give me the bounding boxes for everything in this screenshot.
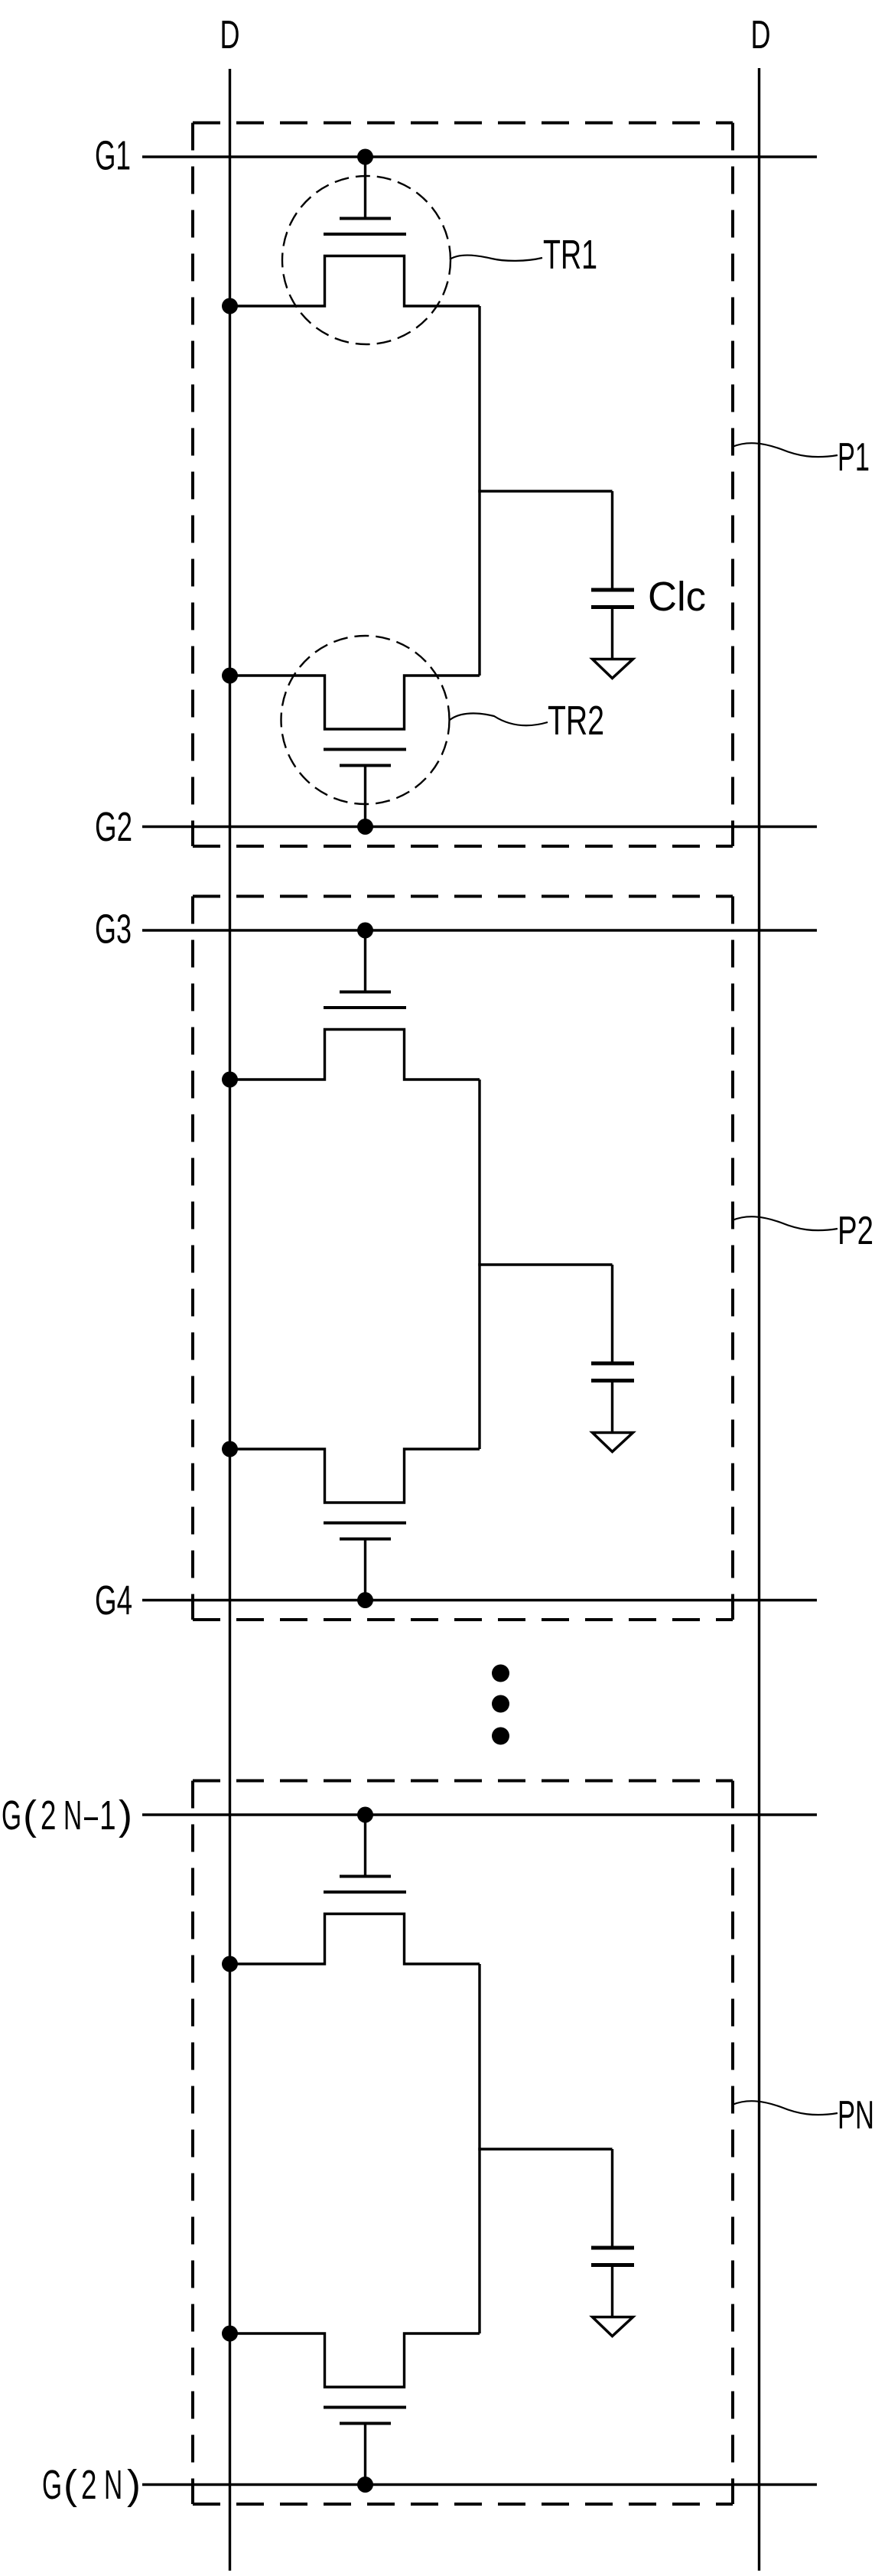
label G(2N-1) <box>2 1792 132 1838</box>
transistor TR1 (PN) channel / source-drain <box>229 1914 480 1965</box>
svg-text:G1: G1 <box>95 133 131 179</box>
svg-text:G2: G2 <box>95 804 132 850</box>
wire: branch to pixel capacitor <box>478 490 612 492</box>
transistor TR2 (PN) channel / source-drain <box>229 2333 480 2387</box>
gate line G4 <box>142 1599 817 1601</box>
transistor TR2 (PN) insulator bar <box>324 2406 406 2409</box>
wire: TR1 drain to TR2 drain <box>478 306 480 676</box>
svg-text:PN: PN <box>838 2093 874 2138</box>
transistor TR2 (P2) channel / source-drain <box>229 1449 480 1503</box>
ground symbol (pixel P2) <box>593 1433 633 1452</box>
label G(2N) <box>42 2461 141 2508</box>
label TR2 with leader <box>450 698 604 744</box>
dashed circle around transistor TR1 <box>282 176 451 344</box>
transistor TR2 (P2) gate electrode bar <box>340 1538 391 1541</box>
label P2 with leader <box>733 1209 874 1253</box>
junction dot: TR1 source on data line D <box>222 298 238 314</box>
transistor TR2 channel / source-drain <box>229 676 480 729</box>
svg-text:1: 1 <box>99 1792 116 1838</box>
gate line G2 <box>142 826 817 828</box>
junction dot: TR1 gate on G1 <box>357 149 373 165</box>
transistor TR1 insulator bar <box>324 233 406 236</box>
ground symbol (pixel PN) <box>593 2317 633 2337</box>
label TR1 with leader <box>450 232 597 278</box>
svg-text:2: 2 <box>81 2461 96 2508</box>
svg-text:(: ( <box>23 1793 37 1838</box>
svg-text:TR1: TR1 <box>543 232 597 278</box>
transistor TR1 gate electrode bar <box>340 217 391 220</box>
svg-text:N: N <box>104 2461 122 2508</box>
transistor TR1 (PN) gate wire <box>364 1815 366 1876</box>
dashed circle around transistor TR2 <box>281 636 450 804</box>
junction dot: TR2 (P2) gate on G4 <box>357 1592 373 1608</box>
vertical ellipsis (repeated pixels) <box>492 1665 509 1745</box>
transistor TR1 (PN) gate electrode bar <box>340 1875 391 1878</box>
junction dot: TR1 (PN) gate on G(2N-1) <box>357 1807 373 1823</box>
transistor TR1 (P2) gate electrode bar <box>340 991 391 994</box>
wire: branch to pixel capacitor <box>478 2148 612 2150</box>
junction dot: TR2 (PN) source on data line D <box>222 2326 238 2342</box>
gate line G3 <box>142 929 817 931</box>
capacitor Clc (pixel PN) <box>591 2149 634 2317</box>
capacitor Clc (pixel P2) <box>591 1265 634 1433</box>
svg-text:): ) <box>127 2462 141 2508</box>
svg-text:N: N <box>63 1792 82 1838</box>
svg-text:2: 2 <box>41 1792 56 1838</box>
junction dot: TR1 (P2) source on data line D <box>222 1072 238 1088</box>
svg-text:TR2: TR2 <box>548 698 604 744</box>
svg-text:): ) <box>119 1793 132 1838</box>
label PN with leader <box>733 2093 875 2138</box>
transistor TR1 (P2) channel / source-drain <box>229 1030 480 1080</box>
svg-text:P1: P1 <box>838 435 870 480</box>
data line D (left) <box>229 69 231 2571</box>
data line D (right) <box>758 68 760 2571</box>
gate line G1 <box>142 155 817 158</box>
junction dot: TR2 source on data line D <box>222 668 238 684</box>
transistor TR2 gate electrode bar <box>340 764 391 767</box>
gate line G(2N-1) <box>142 1813 817 1816</box>
svg-text:G: G <box>42 2461 62 2508</box>
svg-text:Clc: Clc <box>648 574 706 620</box>
svg-text:(: ( <box>63 2462 77 2508</box>
ground symbol (pixel P1) <box>593 659 633 679</box>
junction dot: TR2 gate on G2 <box>357 819 373 835</box>
junction dot: TR1 (PN) source on data line D <box>222 1956 238 1972</box>
transistor TR1 (PN) insulator bar <box>324 1890 406 1894</box>
pixel PN dashed box <box>193 1781 733 2505</box>
gate line G(2N) <box>142 2483 817 2486</box>
svg-text:G3: G3 <box>95 907 132 953</box>
pixel P1 dashed box <box>193 123 733 847</box>
svg-text:–: – <box>84 1793 98 1838</box>
junction dot: TR2 (P2) source on data line D <box>222 1441 238 1457</box>
pixel P2 dashed box <box>193 897 733 1620</box>
transistor TR1 (P2) gate wire <box>364 930 366 992</box>
svg-text:G4: G4 <box>95 1578 132 1623</box>
label P1 with leader <box>733 435 870 480</box>
svg-text:P2: P2 <box>838 1209 873 1253</box>
transistor TR2 (P2) gate wire <box>364 1540 366 1601</box>
junction dot: TR1 (P2) gate on G3 <box>357 923 373 939</box>
svg-text:D: D <box>220 13 240 57</box>
transistor TR1 gate wire <box>364 157 366 218</box>
transistor TR2 (PN) gate wire <box>364 2425 366 2485</box>
transistor TR2 (PN) gate electrode bar <box>340 2422 391 2425</box>
transistor TR2 (P2) insulator bar <box>324 1522 406 1525</box>
wire: branch to pixel capacitor <box>478 1263 612 1265</box>
wire: TR1 (P2) drain to TR2 (P2) drain <box>478 1080 480 1449</box>
transistor TR2 gate wire <box>364 767 366 827</box>
capacitor Clc (pixel P1) <box>591 491 634 659</box>
transistor TR1 (P2) insulator bar <box>324 1006 406 1009</box>
svg-text:G: G <box>2 1792 21 1838</box>
svg-text:D: D <box>751 13 771 57</box>
junction dot: TR2 (PN) gate on G(2N) <box>357 2477 373 2493</box>
transistor TR2 insulator bar <box>324 748 406 751</box>
wire: TR1 (PN) drain to TR2 (PN) drain <box>478 1964 480 2333</box>
transistor TR1 channel / source-drain <box>229 256 480 307</box>
